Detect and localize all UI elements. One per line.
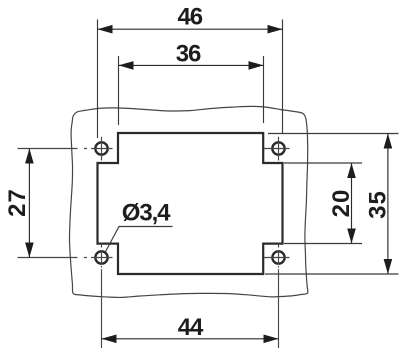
centerline TR vertical [278, 137, 280, 161]
dim 20 arrow top [347, 163, 356, 178]
hole BL [95, 251, 107, 263]
hole TR [272, 142, 284, 154]
dim 46 arrow left [98, 25, 113, 34]
centerline BL horizontal [18, 257, 113, 259]
dim 27 arrow bottom [25, 243, 34, 258]
dim 44 line [102, 338, 279, 340]
hole TL [95, 142, 107, 154]
centerline TL horizontal [18, 148, 113, 150]
dim 35 arrow top [384, 134, 393, 149]
centerline BR horizontal [264, 257, 290, 259]
centerline BR vertical [278, 244, 280, 348]
dim 20 extension top [284, 162, 362, 164]
dim 35 line [387, 134, 389, 275]
centerline TR horizontal [264, 148, 290, 150]
centerline TL vertical [101, 137, 103, 161]
svg-text:Ø3,4: Ø3,4 [122, 199, 171, 226]
dim 36 arrow right [249, 61, 264, 70]
dim 46 extension left [97, 20, 99, 139]
dim 20 arrow bottom [347, 229, 356, 244]
dim 36 extension right [263, 56, 265, 123]
dim 35 extension bottom [265, 273, 399, 275]
hole diameter callout leader [106, 227, 173, 252]
dim 36 extension left [118, 56, 120, 125]
svg-text:36: 36 [176, 41, 201, 68]
dim 20 extension bottom [284, 243, 362, 245]
dim 27 line [28, 149, 30, 258]
dim 46 extension right [282, 20, 284, 135]
svg-text:46: 46 [178, 4, 203, 31]
cutout outline [98, 133, 283, 274]
svg-text:27: 27 [4, 188, 31, 217]
svg-text:35: 35 [364, 190, 391, 219]
dim 46 arrow right [268, 25, 283, 34]
dim 44 arrow left [102, 335, 117, 344]
svg-text:44: 44 [178, 314, 204, 341]
dim 36 line [119, 64, 264, 66]
dim 27 arrow top [25, 149, 34, 164]
dim 44 arrow right [264, 335, 279, 344]
centerline BL vertical [101, 244, 103, 348]
dim 35 extension top [268, 133, 399, 135]
dim 20 line [351, 163, 353, 244]
dim 46 line [98, 28, 283, 30]
dim 36 arrow left [119, 61, 134, 70]
hole BR [272, 251, 284, 263]
panel outline (wavy broken-out section) [70, 106, 308, 297]
svg-text:20: 20 [328, 189, 355, 218]
dim 35 arrow bottom [384, 259, 393, 274]
